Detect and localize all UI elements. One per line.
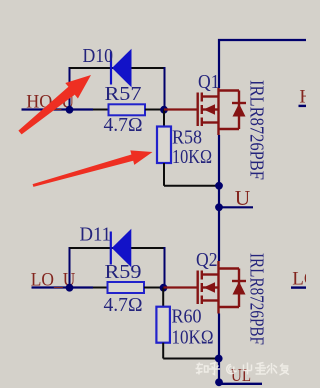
wire: U net stub [219, 206, 253, 208]
svg-text:4.7Ω: 4.7Ω [104, 114, 143, 136]
resistor R58 body [157, 127, 171, 164]
wire: Q1 gate lead [164, 108, 197, 110]
node A junction dot [66, 106, 74, 114]
wire: D10 branch right vertical [164, 67, 166, 110]
wire: R58 to source node C [164, 185, 219, 187]
svg-text:R57: R57 [105, 83, 142, 105]
svg-text:IRLR8726PBF: IRLR8726PBF [246, 253, 268, 345]
svg-text:LO_U: LO_U [292, 268, 306, 289]
wire: junction A to R57 [93, 109, 109, 111]
svg-text:U: U [235, 186, 251, 210]
wire: R60 to source node C2 [163, 358, 219, 360]
wire: R57 to node B [145, 109, 164, 111]
wire: D10 branch horizontal [70, 67, 165, 69]
wire: junction A2 to R59 [93, 287, 108, 289]
resistor R59 body [108, 282, 145, 293]
node E junction dot [215, 378, 223, 386]
svg-text:R59: R59 [105, 261, 142, 283]
svg-text:D10: D10 [83, 45, 114, 67]
svg-text:HO_U: HO_U [299, 86, 306, 107]
wire: UL net stub [219, 383, 262, 385]
wire: HO_U net stub [22, 108, 94, 110]
diode D11 cathode bar [110, 232, 112, 265]
wire: right edge stub under LO [291, 286, 306, 288]
svg-text:IRLR8726PBF: IRLR8726PBF [246, 80, 268, 180]
resistor R60 body [156, 307, 170, 343]
wire: D10 branch left vertical [69, 67, 71, 110]
transistor Q2 [198, 261, 246, 314]
svg-text:4.7Ω: 4.7Ω [104, 294, 143, 316]
node B junction dot [160, 106, 168, 114]
wire: D11 branch right vertical [164, 247, 166, 288]
node D junction dot [215, 203, 223, 211]
svg-text:Q1: Q1 [198, 71, 220, 93]
wire: node B down to R58 [163, 110, 165, 127]
wire: top supply wire to right edge [219, 40, 306, 88]
diode D10 cathode bar [110, 52, 112, 85]
svg-text:10KΩ: 10KΩ [172, 327, 214, 349]
watermark zhihu [196, 363, 290, 376]
annotation arrow 1 [18, 75, 91, 134]
wire: right edge stub under H [299, 105, 307, 107]
node C junction dot [215, 182, 223, 190]
wire: Q2 source down to UL [218, 314, 220, 384]
annotation arrow 2 [33, 150, 153, 187]
node C2 junction dot [215, 355, 223, 363]
wire: Q1 source down to U node [218, 135, 220, 261]
svg-text:R60: R60 [172, 306, 202, 328]
svg-text:D11: D11 [80, 223, 112, 245]
wire: Q2 gate lead [164, 286, 198, 288]
svg-text:10KΩ: 10KΩ [172, 146, 212, 168]
node B2 junction dot [160, 284, 168, 292]
wire: R60 bottom lead [162, 343, 164, 359]
transistor Q1 [198, 88, 246, 135]
wire: R59 to node B2 [144, 287, 164, 289]
wire: LO_U net stub [32, 286, 94, 288]
wire: node B2 down to R60 [162, 288, 164, 307]
diode D10 triangle [112, 49, 132, 88]
diode D11 triangle [112, 229, 132, 268]
wire: D11 branch horizontal [70, 247, 165, 249]
svg-text:Q2: Q2 [196, 249, 218, 271]
wire: R58 bottom lead [163, 163, 165, 186]
resistor R57 body [109, 104, 146, 115]
node A2 junction dot [66, 284, 74, 292]
wire: D11 branch left vertical [69, 247, 71, 288]
